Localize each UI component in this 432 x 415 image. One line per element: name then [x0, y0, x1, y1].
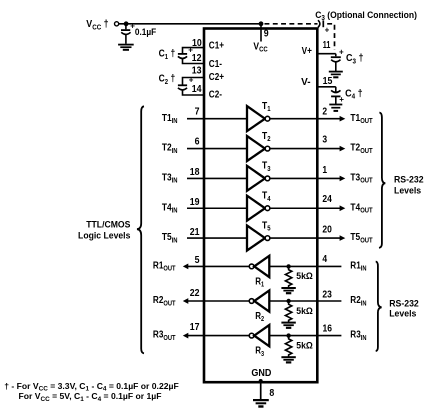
svg-text:2: 2 [322, 106, 327, 117]
svg-text:T4: T4 [262, 190, 271, 203]
svg-text:10: 10 [192, 36, 202, 48]
wire pin 10 [183, 48, 204, 54]
svg-text:22: 22 [190, 287, 200, 299]
brace RS-232 receiver side [376, 262, 382, 352]
svg-text:C2+: C2+ [209, 71, 224, 82]
wire T4OUT output [270, 207, 340, 209]
svg-text:C1+: C1+ [209, 40, 224, 51]
wire T3OUT output [270, 177, 340, 179]
svg-text:8: 8 [269, 387, 274, 399]
capacitor C1 [178, 45, 193, 58]
svg-text:21: 21 [190, 226, 200, 238]
svg-text:23: 23 [322, 289, 331, 300]
svg-text:C1-: C1- [209, 58, 222, 69]
svg-text:VCC †: VCC † [86, 19, 108, 32]
svg-text:VCC: VCC [253, 41, 268, 54]
node pin 8 junction [259, 379, 263, 383]
node resistor junction R3 [286, 333, 290, 337]
arrowhead R3OUT [183, 333, 189, 339]
arrowhead R1OUT [183, 264, 189, 270]
receiver R3 (inverting buffer) [249, 325, 269, 346]
wire T5OUT output [270, 237, 340, 239]
ground resistor R2 [281, 323, 295, 328]
driver T2 (inverting buffer) [247, 136, 270, 161]
svg-text:RS-232: RS-232 [394, 174, 424, 184]
svg-text:For VCC = 5V, C1 - C4 = 0.1µF: For VCC = 5V, C1 - C4 = 0.1µF or 1µF [19, 391, 162, 403]
wire R2OUT output [188, 300, 250, 302]
wire dashed C3 optional connection [265, 23, 318, 25]
wire T2IN input [187, 148, 247, 150]
wire T4IN input [187, 207, 247, 209]
wire dashed to V+ [327, 24, 334, 50]
svg-text:T1OUT: T1OUT [350, 112, 372, 125]
ground bypass cap [118, 45, 134, 50]
ground resistor R1 [281, 288, 295, 293]
wire R2IN input [269, 300, 341, 302]
svg-text:20: 20 [322, 224, 331, 235]
svg-text:V-: V- [301, 77, 310, 88]
ground C3 [329, 72, 343, 78]
svg-text:T2IN: T2IN [162, 142, 178, 155]
svg-text:14: 14 [192, 82, 202, 94]
svg-text:16: 16 [323, 323, 332, 334]
wire T1OUT output [270, 118, 340, 120]
svg-text:T1IN: T1IN [162, 112, 178, 125]
ground resistor R3 [281, 357, 295, 362]
arrowhead T2OUT [340, 146, 346, 152]
wire pin 9 stub [260, 24, 262, 42]
svg-text:RS-232: RS-232 [389, 298, 419, 308]
ground C4 [329, 105, 342, 111]
svg-text:18: 18 [190, 165, 200, 177]
svg-text:T4OUT: T4OUT [350, 202, 372, 215]
svg-text:7: 7 [195, 105, 200, 117]
svg-text:V+: V+ [302, 45, 312, 56]
node pin 9 junction [259, 21, 264, 26]
svg-text:+: + [325, 26, 330, 35]
wire pin 14 [183, 90, 204, 95]
svg-text:1: 1 [322, 164, 327, 175]
wire pin 13 [183, 78, 204, 85]
wire R1OUT output [188, 265, 250, 267]
svg-text:17: 17 [190, 320, 200, 332]
capacitor 0.1uF bypass [121, 22, 135, 44]
arrowhead T1OUT [340, 116, 346, 122]
wire pin 15 V- [317, 86, 336, 88]
svg-text:Logic Levels: Logic Levels [78, 230, 130, 240]
capacitor C3 [331, 47, 344, 71]
resistor R1 pulldown 5k [285, 266, 291, 287]
svg-text:6: 6 [195, 135, 200, 147]
wire pin 11 V+ [317, 53, 336, 55]
svg-text:9: 9 [264, 27, 269, 39]
svg-text:T2: T2 [262, 130, 271, 143]
receiver R2 (inverting buffer) [249, 290, 269, 311]
svg-text:12: 12 [192, 51, 202, 63]
wire VCC rail [119, 23, 261, 25]
capacitor C2 [178, 76, 194, 90]
wire pin 8 stub [260, 381, 262, 400]
svg-text:Levels: Levels [389, 308, 416, 318]
svg-text:R3OUT: R3OUT [153, 329, 176, 342]
svg-text:T4IN: T4IN [162, 202, 178, 215]
arrowhead T5OUT [340, 235, 346, 241]
svg-text:3: 3 [322, 134, 327, 145]
node resistor junction R2 [286, 299, 290, 303]
svg-text:13: 13 [192, 64, 202, 76]
receiver R1 (inverting buffer) [249, 256, 269, 277]
svg-text:R3: R3 [255, 345, 264, 358]
svg-text:5: 5 [195, 253, 200, 265]
svg-text:T1: T1 [262, 100, 271, 113]
driver T5 (inverting buffer) [247, 226, 270, 251]
ground pin 8 [253, 400, 269, 406]
wire T1IN input [187, 118, 247, 120]
svg-text:R2IN: R2IN [350, 294, 367, 307]
capacitor C3 optional (series symbol) [318, 20, 330, 34]
node VCC junction [124, 21, 129, 26]
svg-text:C2 †: C2 † [159, 73, 176, 86]
svg-text:T3: T3 [262, 160, 271, 173]
svg-text:T5OUT: T5OUT [350, 232, 372, 245]
svg-text:T2OUT: T2OUT [350, 142, 372, 155]
svg-text:T3OUT: T3OUT [350, 172, 372, 185]
svg-text:R2OUT: R2OUT [153, 294, 176, 307]
svg-text:R1IN: R1IN [350, 260, 367, 273]
resistor R2 pulldown 5k [285, 301, 291, 322]
svg-text:5kΩ: 5kΩ [296, 340, 313, 350]
svg-text:Levels: Levels [394, 185, 421, 195]
wire R3OUT output [188, 335, 250, 337]
node resistor junction R1 [286, 264, 290, 268]
svg-text:TTL/CMOS: TTL/CMOS [86, 219, 130, 229]
svg-text:C3 (Optional Connection): C3 (Optional Connection) [315, 10, 417, 23]
svg-text:R1OUT: R1OUT [153, 260, 176, 273]
svg-text:15: 15 [323, 75, 333, 87]
svg-text:R1: R1 [255, 276, 264, 289]
svg-text:C4 †: C4 † [345, 88, 363, 101]
driver T3 (inverting buffer) [247, 166, 270, 191]
svg-text:R3IN: R3IN [350, 329, 367, 342]
svg-text:T5: T5 [262, 220, 271, 233]
arrowhead T4OUT [340, 205, 346, 211]
driver T1 (inverting buffer) [247, 106, 270, 131]
svg-text:T5IN: T5IN [162, 232, 178, 245]
wire R1IN input [269, 265, 341, 267]
svg-text:GND: GND [251, 368, 271, 380]
brace RS-232 transmitter side [379, 113, 385, 248]
svg-text:R2: R2 [255, 310, 264, 323]
svg-text:+: + [339, 95, 344, 104]
svg-text:C2-: C2- [209, 89, 222, 100]
capacitor C4 [331, 87, 344, 104]
terminal VCC [115, 22, 119, 26]
wire R3IN input [269, 335, 341, 337]
svg-text:+: + [339, 47, 344, 56]
driver T4 (inverting buffer) [247, 196, 270, 221]
svg-text:C1 †: C1 † [159, 48, 176, 61]
wire T2OUT output [270, 148, 340, 150]
svg-text:5kΩ: 5kΩ [296, 306, 313, 316]
svg-text:11: 11 [323, 39, 331, 50]
svg-text:19: 19 [190, 195, 200, 207]
svg-text:C3 †: C3 † [346, 53, 364, 66]
IC body U1 [204, 29, 317, 383]
wire T3IN input [187, 177, 247, 179]
resistor R3 pulldown 5k [285, 336, 291, 357]
brace TTL/CMOS logic side [137, 106, 144, 353]
svg-text:5kΩ: 5kΩ [296, 271, 313, 281]
arrowhead R2OUT [183, 298, 189, 304]
arrowhead T3OUT [340, 176, 346, 182]
svg-text:4: 4 [322, 253, 327, 264]
svg-text:T3IN: T3IN [162, 172, 178, 185]
wire T5IN input [187, 237, 247, 239]
svg-text:24: 24 [322, 193, 332, 204]
svg-text:0.1µF: 0.1µF [135, 27, 156, 37]
wire pin 12 [183, 59, 204, 64]
